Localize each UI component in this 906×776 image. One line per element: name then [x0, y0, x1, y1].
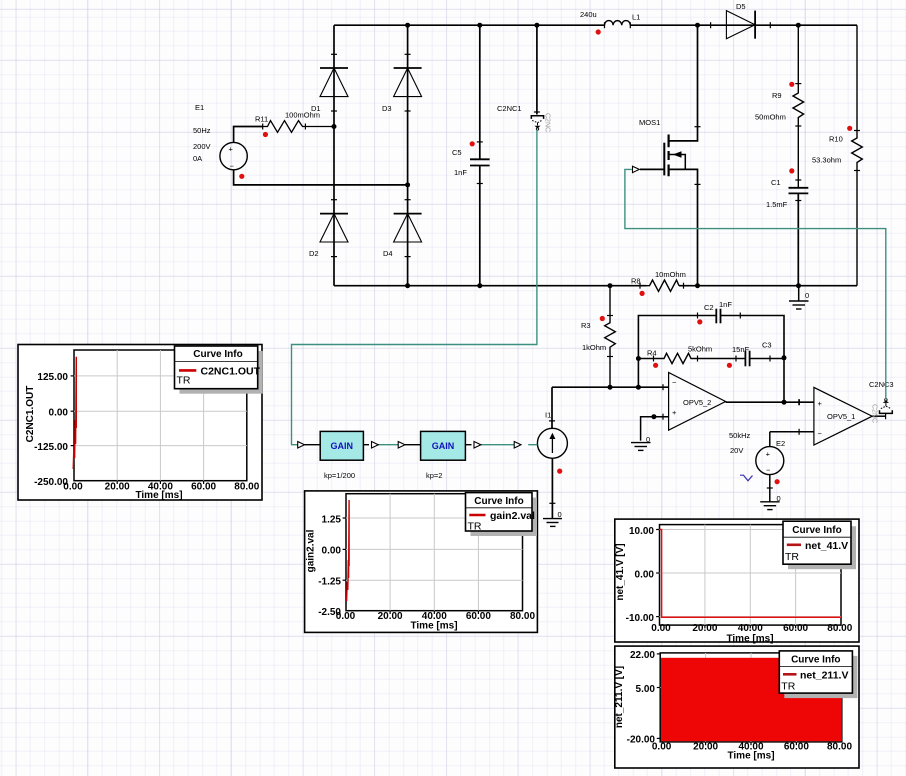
svg-text:−: −: [818, 429, 823, 438]
svg-text:80.00: 80.00: [510, 611, 535, 622]
svg-text:D2: D2: [309, 249, 319, 258]
resistor R3: [581, 286, 615, 388]
ground main (net 0): [789, 286, 809, 309]
source E2: [729, 429, 814, 510]
wire top rail: [334, 24, 857, 26]
svg-text:gain2.val: gain2.val: [490, 510, 535, 522]
svg-text:TR: TR: [785, 551, 799, 563]
svg-text:C3: C3: [762, 341, 772, 350]
svg-text:80.00: 80.00: [827, 623, 852, 634]
teal net gain links: [372, 444, 538, 446]
svg-text:+: +: [229, 145, 234, 154]
svg-text:Time [ms]: Time [ms]: [727, 750, 774, 761]
svg-text:1nF: 1nF: [719, 300, 732, 309]
resistor R9: [755, 25, 804, 187]
svg-text:OPV5_2: OPV5_2: [683, 398, 711, 407]
resistor R10: [812, 25, 862, 286]
transistor MOS1: [633, 25, 701, 286]
diode D4: [383, 200, 422, 258]
svg-text:60.00: 60.00: [783, 623, 808, 634]
svg-text:kp=1/200: kp=1/200: [324, 471, 355, 480]
svg-text:0: 0: [805, 291, 809, 300]
svg-text:E1: E1: [195, 103, 204, 112]
resistor R11: [255, 111, 334, 133]
svg-text:D4: D4: [383, 249, 393, 258]
svg-text:20.00: 20.00: [105, 482, 130, 493]
svg-text:-1.25: -1.25: [318, 577, 341, 588]
svg-text:−: −: [672, 378, 677, 387]
svg-text:15nF: 15nF: [732, 345, 750, 354]
svg-text:0A: 0A: [193, 154, 202, 163]
plot panel P3 net_41.V: [615, 519, 859, 644]
svg-text:net_41.V [V]: net_41.V [V]: [615, 543, 626, 600]
svg-text:−: −: [766, 466, 771, 475]
gain block GAIN1: [298, 431, 379, 480]
svg-text:C2NC: C2NC: [544, 113, 551, 132]
svg-text:R11: R11: [255, 115, 268, 124]
plot panel P2 gain2.val: [305, 491, 538, 633]
svg-text:Curve Info: Curve Info: [193, 349, 242, 360]
svg-text:C2NC: C2NC: [871, 404, 878, 423]
svg-text:L1: L1: [632, 13, 640, 22]
diode D2: [309, 200, 348, 258]
svg-text:MOS1: MOS1: [639, 118, 660, 127]
svg-text:200V: 200V: [193, 142, 211, 151]
svg-text:R4: R4: [647, 349, 657, 358]
svg-text:+: +: [766, 450, 771, 459]
svg-text:kp=2: kp=2: [426, 471, 442, 480]
wire output row: [726, 399, 814, 405]
svg-text:0: 0: [777, 494, 781, 503]
svg-text:+: +: [672, 408, 677, 417]
svg-text:20.00: 20.00: [378, 611, 403, 622]
svg-text:TR: TR: [468, 521, 482, 533]
diode D5: [711, 2, 771, 39]
svg-text:0: 0: [646, 435, 650, 444]
svg-text:60.00: 60.00: [191, 482, 216, 493]
svg-text:10mOhm: 10mOhm: [655, 270, 686, 279]
svg-text:net_211.V: net_211.V: [800, 669, 848, 681]
svg-text:C2NC3: C2NC3: [869, 380, 894, 389]
diode D3: [382, 54, 422, 113]
wire bottom rail: [334, 285, 857, 287]
wire feedback right leg: [783, 358, 785, 402]
svg-text:60.00: 60.00: [784, 741, 809, 752]
svg-text:C2NC1: C2NC1: [497, 104, 522, 113]
svg-text:R8: R8: [631, 277, 641, 286]
resistor R8: [631, 270, 686, 291]
resistor R4 and capacitor C3: [638, 341, 784, 367]
svg-text:R3: R3: [581, 321, 591, 330]
svg-text:Curve Info: Curve Info: [792, 525, 841, 536]
probe red dots: [239, 29, 852, 484]
svg-text:0.00: 0.00: [635, 569, 655, 580]
svg-text:5.00: 5.00: [636, 684, 656, 695]
svg-text:D3: D3: [382, 104, 392, 113]
source E1: [193, 103, 408, 185]
svg-text:E2: E2: [776, 439, 785, 448]
svg-text:0: 0: [558, 510, 562, 519]
svg-text:0.00: 0.00: [336, 611, 356, 622]
svg-text:1.5mF: 1.5mF: [766, 200, 788, 209]
svg-text:5kOhm: 5kOhm: [688, 345, 712, 354]
svg-text:50Hz: 50Hz: [193, 126, 211, 135]
wire D3-D4 leg: [407, 25, 409, 286]
svg-text:Curve Info: Curve Info: [474, 496, 523, 507]
svg-text:0.00: 0.00: [63, 482, 83, 493]
svg-text:60.00: 60.00: [466, 611, 491, 622]
svg-text:TR: TR: [177, 375, 191, 387]
svg-text:OPV5_1: OPV5_1: [827, 412, 855, 421]
svg-text:D5: D5: [736, 2, 746, 11]
svg-text:-10.00: -10.00: [626, 613, 655, 624]
op-amp OPV5_2: [663, 373, 726, 431]
svg-text:53.3ohm: 53.3ohm: [812, 156, 841, 165]
inductor L1: [580, 10, 640, 28]
svg-text:80.00: 80.00: [234, 482, 259, 493]
svg-text:20.00: 20.00: [692, 623, 717, 634]
connector C2NC1: [497, 25, 551, 132]
svg-text:0.00: 0.00: [651, 623, 671, 634]
svg-text:20.00: 20.00: [693, 741, 718, 752]
svg-text:Time [ms]: Time [ms]: [135, 490, 182, 501]
svg-text:C1: C1: [771, 178, 781, 187]
svg-text:1kOhm: 1kOhm: [582, 343, 606, 352]
svg-text:50kHz: 50kHz: [729, 431, 751, 440]
diode D1: [311, 54, 348, 113]
svg-text:C2NC1.OUT: C2NC1.OUT: [25, 386, 36, 443]
svg-text:0.00: 0.00: [322, 546, 342, 557]
svg-text:C5: C5: [452, 148, 462, 157]
svg-text:TR: TR: [781, 680, 795, 692]
svg-text:-125.00: -125.00: [34, 442, 68, 453]
connector C2NC3: [869, 380, 894, 423]
svg-text:125.00: 125.00: [37, 372, 68, 383]
teal net gate drive: [625, 169, 886, 399]
svg-text:+: +: [818, 399, 823, 408]
capacitor C2 feedback: [638, 300, 784, 387]
wire op-amp plus row + ground: [631, 417, 669, 451]
svg-text:1.25: 1.25: [322, 514, 342, 525]
svg-text:C2NC1.OUT: C2NC1.OUT: [201, 365, 261, 377]
svg-text:GAIN: GAIN: [432, 441, 455, 451]
svg-text:R9: R9: [772, 91, 782, 100]
svg-text:D1: D1: [311, 104, 321, 113]
svg-text:Curve Info: Curve Info: [791, 655, 840, 666]
svg-text:240u: 240u: [580, 10, 597, 19]
svg-text:−: −: [230, 162, 235, 171]
plot panel P4 net_211.V: [614, 646, 859, 768]
svg-text:GAIN: GAIN: [331, 441, 354, 451]
svg-text:50mOhm: 50mOhm: [755, 113, 786, 122]
svg-text:R10: R10: [829, 135, 843, 144]
svg-text:10.00: 10.00: [629, 526, 654, 537]
svg-text:gain2.val: gain2.val: [306, 529, 317, 572]
svg-text:Time [ms]: Time [ms]: [726, 633, 773, 644]
plot panel P1 C2NC1.OUT: [18, 345, 263, 501]
gain block GAIN2: [398, 431, 521, 480]
svg-text:net_211.V [V]: net_211.V [V]: [614, 666, 625, 728]
op-amp OPV5_1: [814, 387, 872, 445]
svg-text:1nF: 1nF: [454, 168, 467, 177]
svg-text:C2: C2: [704, 303, 714, 312]
svg-text:22.00: 22.00: [630, 650, 655, 661]
svg-text:0.00: 0.00: [652, 741, 672, 752]
capacitor C1: [766, 178, 808, 286]
svg-text:80.00: 80.00: [827, 741, 852, 752]
svg-text:0.00: 0.00: [49, 408, 69, 419]
teal net C2NC1 to gain chain: [292, 130, 537, 445]
svg-text:Time [ms]: Time [ms]: [410, 621, 457, 632]
capacitor C5: [452, 25, 490, 286]
current source I1: [537, 387, 567, 526]
svg-text:net_41.V: net_41.V: [805, 540, 848, 552]
wire D1-D2 leg: [333, 25, 335, 286]
svg-text:20V: 20V: [730, 446, 743, 455]
svg-text:I1: I1: [545, 411, 551, 420]
wire op-amp minus row: [552, 386, 669, 388]
